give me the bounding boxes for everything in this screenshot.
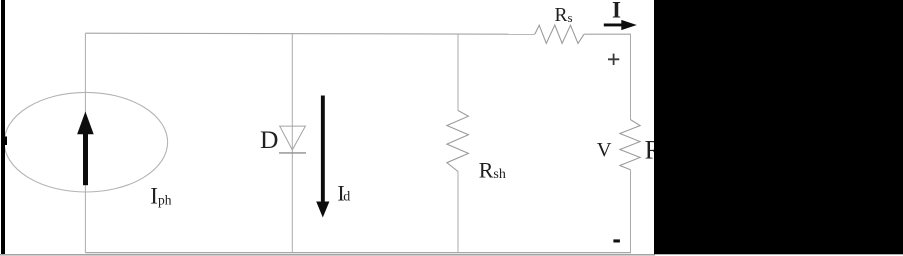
svg-text:d: d — [343, 190, 350, 205]
left bar bump — [4, 137, 7, 146]
current source arrow Iph — [77, 112, 94, 186]
minus terminal sign — [613, 239, 620, 242]
load resistor R zigzag — [620, 120, 640, 170]
wire right branch vertical bottom — [630, 170, 632, 253]
diode current arrow Id — [316, 96, 329, 218]
current source ellipse — [4, 92, 167, 192]
plus terminal sign — [608, 54, 619, 65]
resistor Rs zigzag — [535, 25, 584, 43]
output current arrow I — [604, 20, 637, 30]
wire Rsh branch vertical bottom — [457, 172, 459, 253]
wire left branch vertical — [84, 33, 86, 253]
right black scan block — [654, 0, 903, 254]
wire right branch vertical top — [630, 34, 632, 120]
wire bottom horizontal — [85, 252, 631, 254]
resistor Rsh zigzag — [447, 111, 469, 172]
svg-text:D: D — [260, 125, 278, 154]
svg-text:V: V — [597, 139, 612, 161]
wire diode branch vertical — [291, 34, 293, 253]
wire Rsh branch vertical top — [457, 34, 459, 111]
diode D symbol — [279, 126, 306, 153]
left black scan bar — [1, 0, 5, 254]
svg-text:I: I — [612, 0, 621, 23]
wire top-right segment after Rs — [584, 33, 631, 35]
bottom page hairline — [0, 254, 655, 255]
wire top horizontal — [85, 33, 534, 34]
